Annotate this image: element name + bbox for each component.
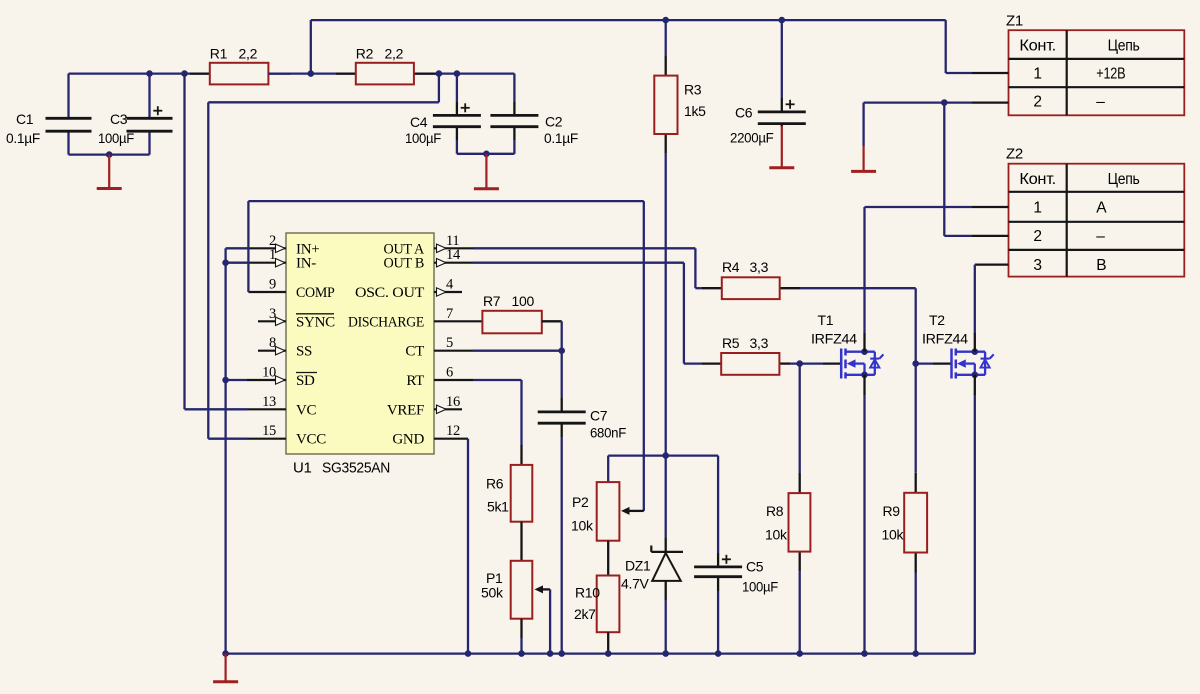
wire R10 bottom to bus xyxy=(607,632,609,653)
U1 pin 5 CT xyxy=(405,335,473,360)
svg-text:50k: 50k xyxy=(481,585,504,601)
resistor R9 xyxy=(882,473,928,654)
svg-text:0.1µF: 0.1µF xyxy=(6,130,40,146)
wire top +12V rail xyxy=(311,20,946,74)
wire main +12V input horizontal rail xyxy=(69,72,515,74)
svg-text:3,3: 3,3 xyxy=(750,259,769,275)
transistor T2 IRFZ44 xyxy=(922,312,994,395)
wire OUT A to R4 xyxy=(473,248,702,288)
wire VCC feed down-left xyxy=(208,74,439,103)
U1 pin 7 DISCHARGE xyxy=(348,306,482,331)
svg-text:2,2: 2,2 xyxy=(239,46,258,62)
svg-text:Цепь: Цепь xyxy=(1108,171,1140,188)
wire C4-C2 bottom xyxy=(457,153,515,155)
svg-text:IRFZ44: IRFZ44 xyxy=(922,331,968,347)
U1 pin 8 SS xyxy=(258,335,312,360)
svg-text:R10: R10 xyxy=(575,585,600,601)
potentiometer P2 xyxy=(571,456,644,541)
wire C1-C3 bottom xyxy=(69,153,150,155)
capacitor C4 xyxy=(405,74,481,154)
svg-text:R2: R2 xyxy=(356,46,374,62)
svg-text:SYNC: SYNC xyxy=(296,314,335,330)
U1 pin 11 OUT A xyxy=(384,233,474,257)
resistor R1 xyxy=(190,46,291,85)
wire VC net from +12 tap xyxy=(185,74,248,410)
U1 pin 4 OSC. OUT xyxy=(355,277,462,302)
wire P2 to R10 xyxy=(607,541,609,576)
U1 pin 10 SD xyxy=(247,365,317,390)
wire R7 to CT node xyxy=(542,321,562,350)
svg-text:1: 1 xyxy=(269,247,276,263)
svg-text:100µF: 100µF xyxy=(742,579,778,595)
node junction gnd net to Z2 xyxy=(941,99,972,236)
wire P1 wiper to ground bus xyxy=(549,589,551,653)
svg-text:R1: R1 xyxy=(210,46,228,62)
capacitor C7 xyxy=(538,351,626,654)
wire CT net xyxy=(473,350,562,352)
svg-text:CT: CT xyxy=(405,344,424,360)
svg-text:A: A xyxy=(1096,199,1107,216)
wire T2 drain to Z2 pin B xyxy=(974,265,976,333)
svg-text:2k7: 2k7 xyxy=(574,606,596,622)
wire GND pin to bus xyxy=(467,439,469,654)
svg-text:C5: C5 xyxy=(746,559,764,575)
U1 pin 16 VREF xyxy=(387,394,462,419)
svg-text:100: 100 xyxy=(512,293,535,309)
wire riser to Z1 pin1 xyxy=(946,20,972,73)
svg-text:DZ1: DZ1 xyxy=(625,558,651,574)
svg-text:VCC: VCC xyxy=(296,432,326,448)
svg-text:C7: C7 xyxy=(590,408,608,424)
U1 pin 12 GND xyxy=(392,423,468,448)
resistor R5 xyxy=(702,335,790,375)
svg-text:1: 1 xyxy=(1033,199,1041,216)
svg-text:IN-: IN- xyxy=(296,256,316,272)
svg-text:–: – xyxy=(1096,94,1105,111)
node junction CT/C7 xyxy=(558,347,565,354)
svg-text:2200µF: 2200µF xyxy=(730,130,774,146)
wire OUT B to R5 xyxy=(473,263,702,364)
node junction DZ1 top xyxy=(662,452,669,459)
svg-text:C2: C2 xyxy=(545,114,563,130)
svg-text:15: 15 xyxy=(262,423,276,439)
node junction IN-/vertical xyxy=(222,259,247,653)
node junction SD xyxy=(222,377,247,384)
ground top-right xyxy=(851,103,876,172)
wire RT net xyxy=(473,380,522,465)
svg-text:3: 3 xyxy=(269,306,276,322)
svg-text:7: 7 xyxy=(446,306,453,322)
svg-text:9: 9 xyxy=(269,277,276,293)
resistor R7 xyxy=(482,293,541,333)
svg-text:R3: R3 xyxy=(684,82,702,98)
node junction C3 top xyxy=(146,70,153,77)
svg-text:680nF: 680nF xyxy=(590,425,626,441)
wire T1 drain to Z2 pin A xyxy=(865,207,973,333)
svg-text:COMP: COMP xyxy=(296,285,335,301)
U1 pin 3 SYNC xyxy=(258,306,335,331)
svg-text:SD: SD xyxy=(296,373,315,389)
connector Z1 table xyxy=(972,13,1184,116)
wire COMP loop to P2 wiper xyxy=(248,201,643,511)
resistor R2 xyxy=(336,46,437,85)
svg-text:R7: R7 xyxy=(483,293,501,309)
svg-text:4.7V: 4.7V xyxy=(621,576,650,592)
resistor R6 xyxy=(486,465,532,522)
ground bus bottom xyxy=(226,652,975,654)
svg-text:12: 12 xyxy=(446,423,460,439)
svg-text:14: 14 xyxy=(446,247,461,263)
node junction VC tap xyxy=(181,70,188,77)
connector Z2 table xyxy=(972,146,1184,277)
node junction T1 gate / R8 xyxy=(796,360,803,473)
svg-text:C3: C3 xyxy=(110,111,128,127)
svg-text:OSC. OUT: OSC. OUT xyxy=(355,285,424,301)
svg-text:–: – xyxy=(1096,228,1105,245)
resistor R10 xyxy=(574,576,619,633)
svg-text:4: 4 xyxy=(446,277,454,293)
wire R4 to T2 gate riser xyxy=(800,288,916,363)
svg-text:C4: C4 xyxy=(410,114,428,130)
node junctions on ground bus xyxy=(222,650,919,657)
wire R5 to T1 gate xyxy=(790,362,841,364)
svg-text:IRFZ44: IRFZ44 xyxy=(811,331,857,347)
transistor T1 IRFZ44 xyxy=(811,312,883,395)
svg-text:OUT B: OUT B xyxy=(384,256,425,272)
wire R6 to P1 xyxy=(520,522,522,561)
svg-text:B: B xyxy=(1096,257,1106,274)
ground under C4/C2 xyxy=(474,151,499,189)
svg-text:+12В: +12В xyxy=(1096,65,1125,82)
U1 pin 1 IN- xyxy=(247,247,316,272)
potentiometer P1 xyxy=(481,561,550,619)
svg-text:10: 10 xyxy=(262,365,276,381)
svg-text:C6: C6 xyxy=(735,105,753,121)
svg-text:Z1: Z1 xyxy=(1006,13,1023,30)
svg-text:3,3: 3,3 xyxy=(750,335,769,351)
ground under C6 xyxy=(769,124,794,168)
wire zener node horizontal xyxy=(608,454,718,456)
capacitor C2 xyxy=(490,74,578,154)
resistor R3 xyxy=(654,20,706,154)
svg-text:Конт.: Конт. xyxy=(1019,171,1056,188)
svg-text:6: 6 xyxy=(446,365,453,381)
svg-text:Z2: Z2 xyxy=(1006,146,1023,163)
wire VCC net xyxy=(208,102,247,438)
svg-text:0.1µF: 0.1µF xyxy=(544,130,578,146)
svg-text:100µF: 100µF xyxy=(405,130,441,146)
U1 pin 14 OUT B xyxy=(384,247,474,272)
node junction T2 gate / R9 xyxy=(912,360,951,472)
wire IN+ to IN- junction xyxy=(226,248,247,262)
wire T2 source to bus xyxy=(974,395,976,654)
U1 pin 15 VCC xyxy=(247,423,326,448)
capacitor C6 xyxy=(730,20,806,145)
svg-text:100µF: 100µF xyxy=(98,130,134,146)
svg-text:VC: VC xyxy=(296,402,317,418)
node junction C6 top xyxy=(779,17,786,24)
op-amp U1 SG3525AN body xyxy=(286,233,434,477)
svg-text:P2: P2 xyxy=(572,494,589,510)
capacitor C3 xyxy=(98,74,173,155)
svg-text:8: 8 xyxy=(269,335,276,351)
svg-text:RT: RT xyxy=(406,373,424,389)
svg-text:C1: C1 xyxy=(16,111,34,127)
U1 pin 13 VC xyxy=(247,394,317,419)
node junction R3 top xyxy=(662,17,669,24)
wire P1 bottom to bus xyxy=(520,619,522,654)
svg-text:2,2: 2,2 xyxy=(385,46,404,62)
U1 pin 6 RT xyxy=(406,365,473,390)
svg-text:2: 2 xyxy=(1033,228,1041,245)
wire R3 bottom to regulator node xyxy=(665,154,667,456)
svg-text:16: 16 xyxy=(446,394,460,410)
svg-text:T1: T1 xyxy=(818,312,834,328)
svg-text:1k5: 1k5 xyxy=(684,103,706,119)
svg-text:R8: R8 xyxy=(766,503,784,519)
svg-text:10k: 10k xyxy=(765,527,788,543)
svg-text:10k: 10k xyxy=(882,527,905,543)
node junction R1-R2 with riser to top rail xyxy=(268,70,355,77)
node junction R2 output xyxy=(436,70,443,77)
svg-text:5k1: 5k1 xyxy=(487,499,509,515)
node junction C4 top xyxy=(454,70,461,77)
U1 pin 9 COMP xyxy=(248,277,334,302)
ground under C1/C3 xyxy=(97,151,122,188)
svg-text:R6: R6 xyxy=(486,476,504,492)
zener diode DZ1 xyxy=(621,456,683,654)
svg-text:VREF: VREF xyxy=(387,402,424,418)
wire ground to Z1 pin2 xyxy=(864,101,972,103)
svg-text:5: 5 xyxy=(446,335,453,351)
capacitor C1 xyxy=(6,74,92,155)
resistor R8 xyxy=(765,473,810,654)
svg-text:DISCHARGE: DISCHARGE xyxy=(348,314,424,330)
wire T1 source to bus xyxy=(863,395,865,654)
svg-text:10k: 10k xyxy=(571,518,594,534)
resistor R4 xyxy=(702,259,800,299)
svg-text:13: 13 xyxy=(262,394,276,410)
svg-text:SS: SS xyxy=(296,344,312,360)
svg-text:Цепь: Цепь xyxy=(1108,37,1140,54)
capacitor C5 xyxy=(694,456,778,654)
svg-text:R9: R9 xyxy=(883,503,901,519)
svg-text:3: 3 xyxy=(1033,257,1041,274)
svg-text:1: 1 xyxy=(1033,65,1041,82)
svg-text:GND: GND xyxy=(392,432,424,448)
svg-text:U1: U1 xyxy=(293,460,312,477)
svg-text:R4: R4 xyxy=(722,259,740,275)
svg-text:Конт.: Конт. xyxy=(1019,37,1056,54)
svg-text:2: 2 xyxy=(1033,94,1041,111)
svg-text:T2: T2 xyxy=(929,312,945,328)
ground bottom-left xyxy=(213,654,238,682)
U1 pin 2 IN+ xyxy=(247,233,319,257)
svg-text:R5: R5 xyxy=(722,335,740,351)
svg-text:SG3525AN: SG3525AN xyxy=(322,460,390,477)
